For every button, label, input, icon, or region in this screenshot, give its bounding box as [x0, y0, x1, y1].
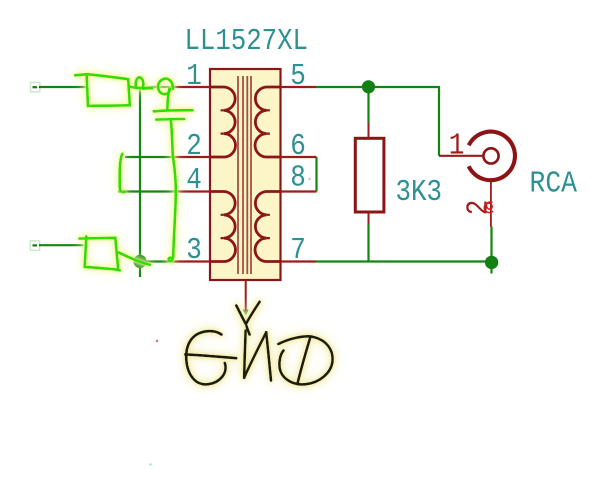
wire top-left segment A: [39, 86, 88, 88]
annotation diagonal to junction: [119, 252, 150, 264]
svg-text:5: 5: [290, 58, 306, 94]
svg-text:3: 3: [186, 232, 202, 268]
annotation loop alpha: [136, 77, 147, 88]
pin stub 7: [281, 260, 317, 262]
speck artifact pink: [308, 178, 310, 180]
letter N: [244, 331, 245, 378]
winding upper-right: [255, 87, 280, 157]
letter D: [278, 336, 332, 384]
svg-text:3K3: 3K3: [396, 174, 443, 210]
GND pin green tip: [244, 310, 249, 314]
letter G: [186, 331, 225, 384]
winding lower-right: [255, 192, 280, 262]
arrowhead V: [236, 306, 246, 325]
svg-text:4: 4: [186, 162, 202, 198]
transformer T1 body: [210, 69, 281, 280]
svg-text:6: 6: [290, 128, 306, 164]
annotation bracket pins 2-4: [120, 154, 125, 192]
GND pin line: [245, 280, 247, 313]
annotation loop 9: [158, 79, 173, 110]
annotation rectangle bottom overshoot: [117, 268, 120, 271]
svg-text:7: 7: [290, 232, 306, 268]
wire bottom bus right: [316, 260, 492, 262]
connector J2 (bottom-left): [30, 241, 39, 250]
pin stub 5: [281, 86, 317, 88]
svg-text:2: 2: [186, 128, 202, 164]
wire resistor top: [367, 87, 369, 123]
svg-text:1: 1: [449, 128, 465, 164]
wire vertical left bus: [139, 88, 141, 278]
wire resistor bottom: [367, 224, 369, 262]
speck artifact teal: [149, 463, 151, 465]
pin stub 2: [175, 156, 211, 158]
wire bottom-left stub: [39, 244, 84, 246]
RCA pin1 line: [439, 155, 483, 157]
transformer core lines: [238, 76, 251, 274]
speck artifact red: [156, 340, 158, 342]
junction dot bottom-left: [133, 255, 146, 268]
svg-text:8: 8: [290, 160, 306, 196]
svg-text:RCA: RCA: [530, 165, 578, 201]
wire top bus right: [316, 87, 439, 156]
junction dot top: [362, 80, 375, 93]
red squiggle annotation near pin2: [484, 202, 493, 213]
pin stub 3: [175, 260, 211, 262]
wire bottom bus left: [140, 260, 176, 262]
wire pin6-pin8 link: [315, 157, 317, 192]
svg-text:1: 1: [186, 58, 202, 94]
annotation capacitor bottom plate: [156, 118, 184, 121]
resistor lead bottom: [368, 212, 370, 224]
annotation rectangle top-left: [75, 74, 130, 106]
green annotation group: [75, 74, 192, 270]
wire pin2 left: [125, 156, 176, 158]
annotation rectangle bottom-left: [79, 236, 118, 269]
pin stub 1: [175, 86, 211, 88]
resistor R1 3K3: [355, 138, 384, 212]
annotation capacitor ground lead: [169, 120, 176, 261]
pin stub 8: [281, 190, 317, 192]
RCA pin2 line: [490, 182, 492, 227]
wire top-left segment B: [131, 86, 177, 88]
RCA inner circle: [483, 148, 498, 163]
resistor lead top: [368, 123, 370, 139]
winding upper-left: [210, 87, 235, 157]
annotation stroke on wire: [129, 86, 152, 88]
GND handwriting group: [185, 302, 332, 385]
winding lower-left: [210, 192, 235, 262]
svg-text:LL1527XL: LL1527XL: [185, 23, 309, 59]
wire pin4 left: [118, 190, 176, 192]
connector J1 (top-left): [31, 83, 40, 92]
annotation capacitor top plate: [154, 110, 193, 111]
pin stub 6: [281, 156, 317, 158]
pin stub 4: [175, 190, 211, 192]
junction dot bottom-right: [485, 256, 498, 269]
wire RCA pin2 lower: [490, 227, 492, 274]
RCA connector P1 outer arc: [469, 132, 515, 181]
